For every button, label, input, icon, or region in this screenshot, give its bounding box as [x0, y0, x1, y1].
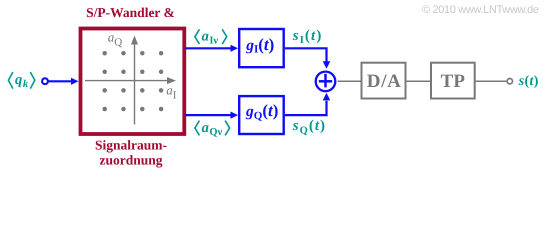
wire gI to adder	[285, 48, 330, 69]
svg-text:gI(t): gI(t)	[245, 35, 274, 56]
constellation points (16 dots)	[102, 51, 163, 111]
svg-text:sQ(t): sQ(t)	[292, 118, 326, 136]
svg-text:D/A: D/A	[367, 71, 402, 92]
wire gQ to adder	[285, 93, 330, 115]
wire converter to gQ	[185, 112, 238, 119]
wire input qk to converter	[48, 78, 78, 85]
svg-text:sI(t): sI(t)	[292, 28, 323, 46]
node aIn label	[195, 29, 227, 44]
svg-text:s(t): s(t)	[518, 74, 539, 89]
block TP (lowpass)	[431, 63, 475, 99]
wire converter to gI	[185, 45, 238, 52]
wire D/A to TP	[406, 80, 431, 82]
svg-text:S/P-Wandler &: S/P-Wandler &	[86, 5, 175, 20]
output terminal node s(t)	[507, 79, 512, 84]
adder (summing junction)	[316, 72, 336, 92]
wire adder to D/A	[338, 80, 362, 82]
filter block gQ(t)	[239, 96, 284, 134]
svg-text:Signalraum-: Signalraum-	[95, 138, 167, 153]
node qk label	[8, 72, 34, 89]
axis aQ (vertical)	[131, 36, 138, 125]
node aQn label	[195, 121, 230, 136]
axis aI (horizontal)	[85, 77, 176, 84]
svg-text:zuordnung: zuordnung	[99, 153, 162, 168]
filter block gI(t)	[239, 29, 284, 67]
converter block U1 (S/P-Wandler & Signalraumzuordnung)	[81, 29, 185, 135]
wire TP to output terminal	[476, 80, 507, 82]
block D/A converter	[362, 63, 406, 99]
input terminal node qk	[42, 78, 48, 84]
svg-text:TP: TP	[441, 71, 466, 92]
svg-text:© 2010 www.LNTwww.de: © 2010 www.LNTwww.de	[422, 4, 539, 16]
svg-text:gQ(t): gQ(t)	[245, 101, 278, 122]
